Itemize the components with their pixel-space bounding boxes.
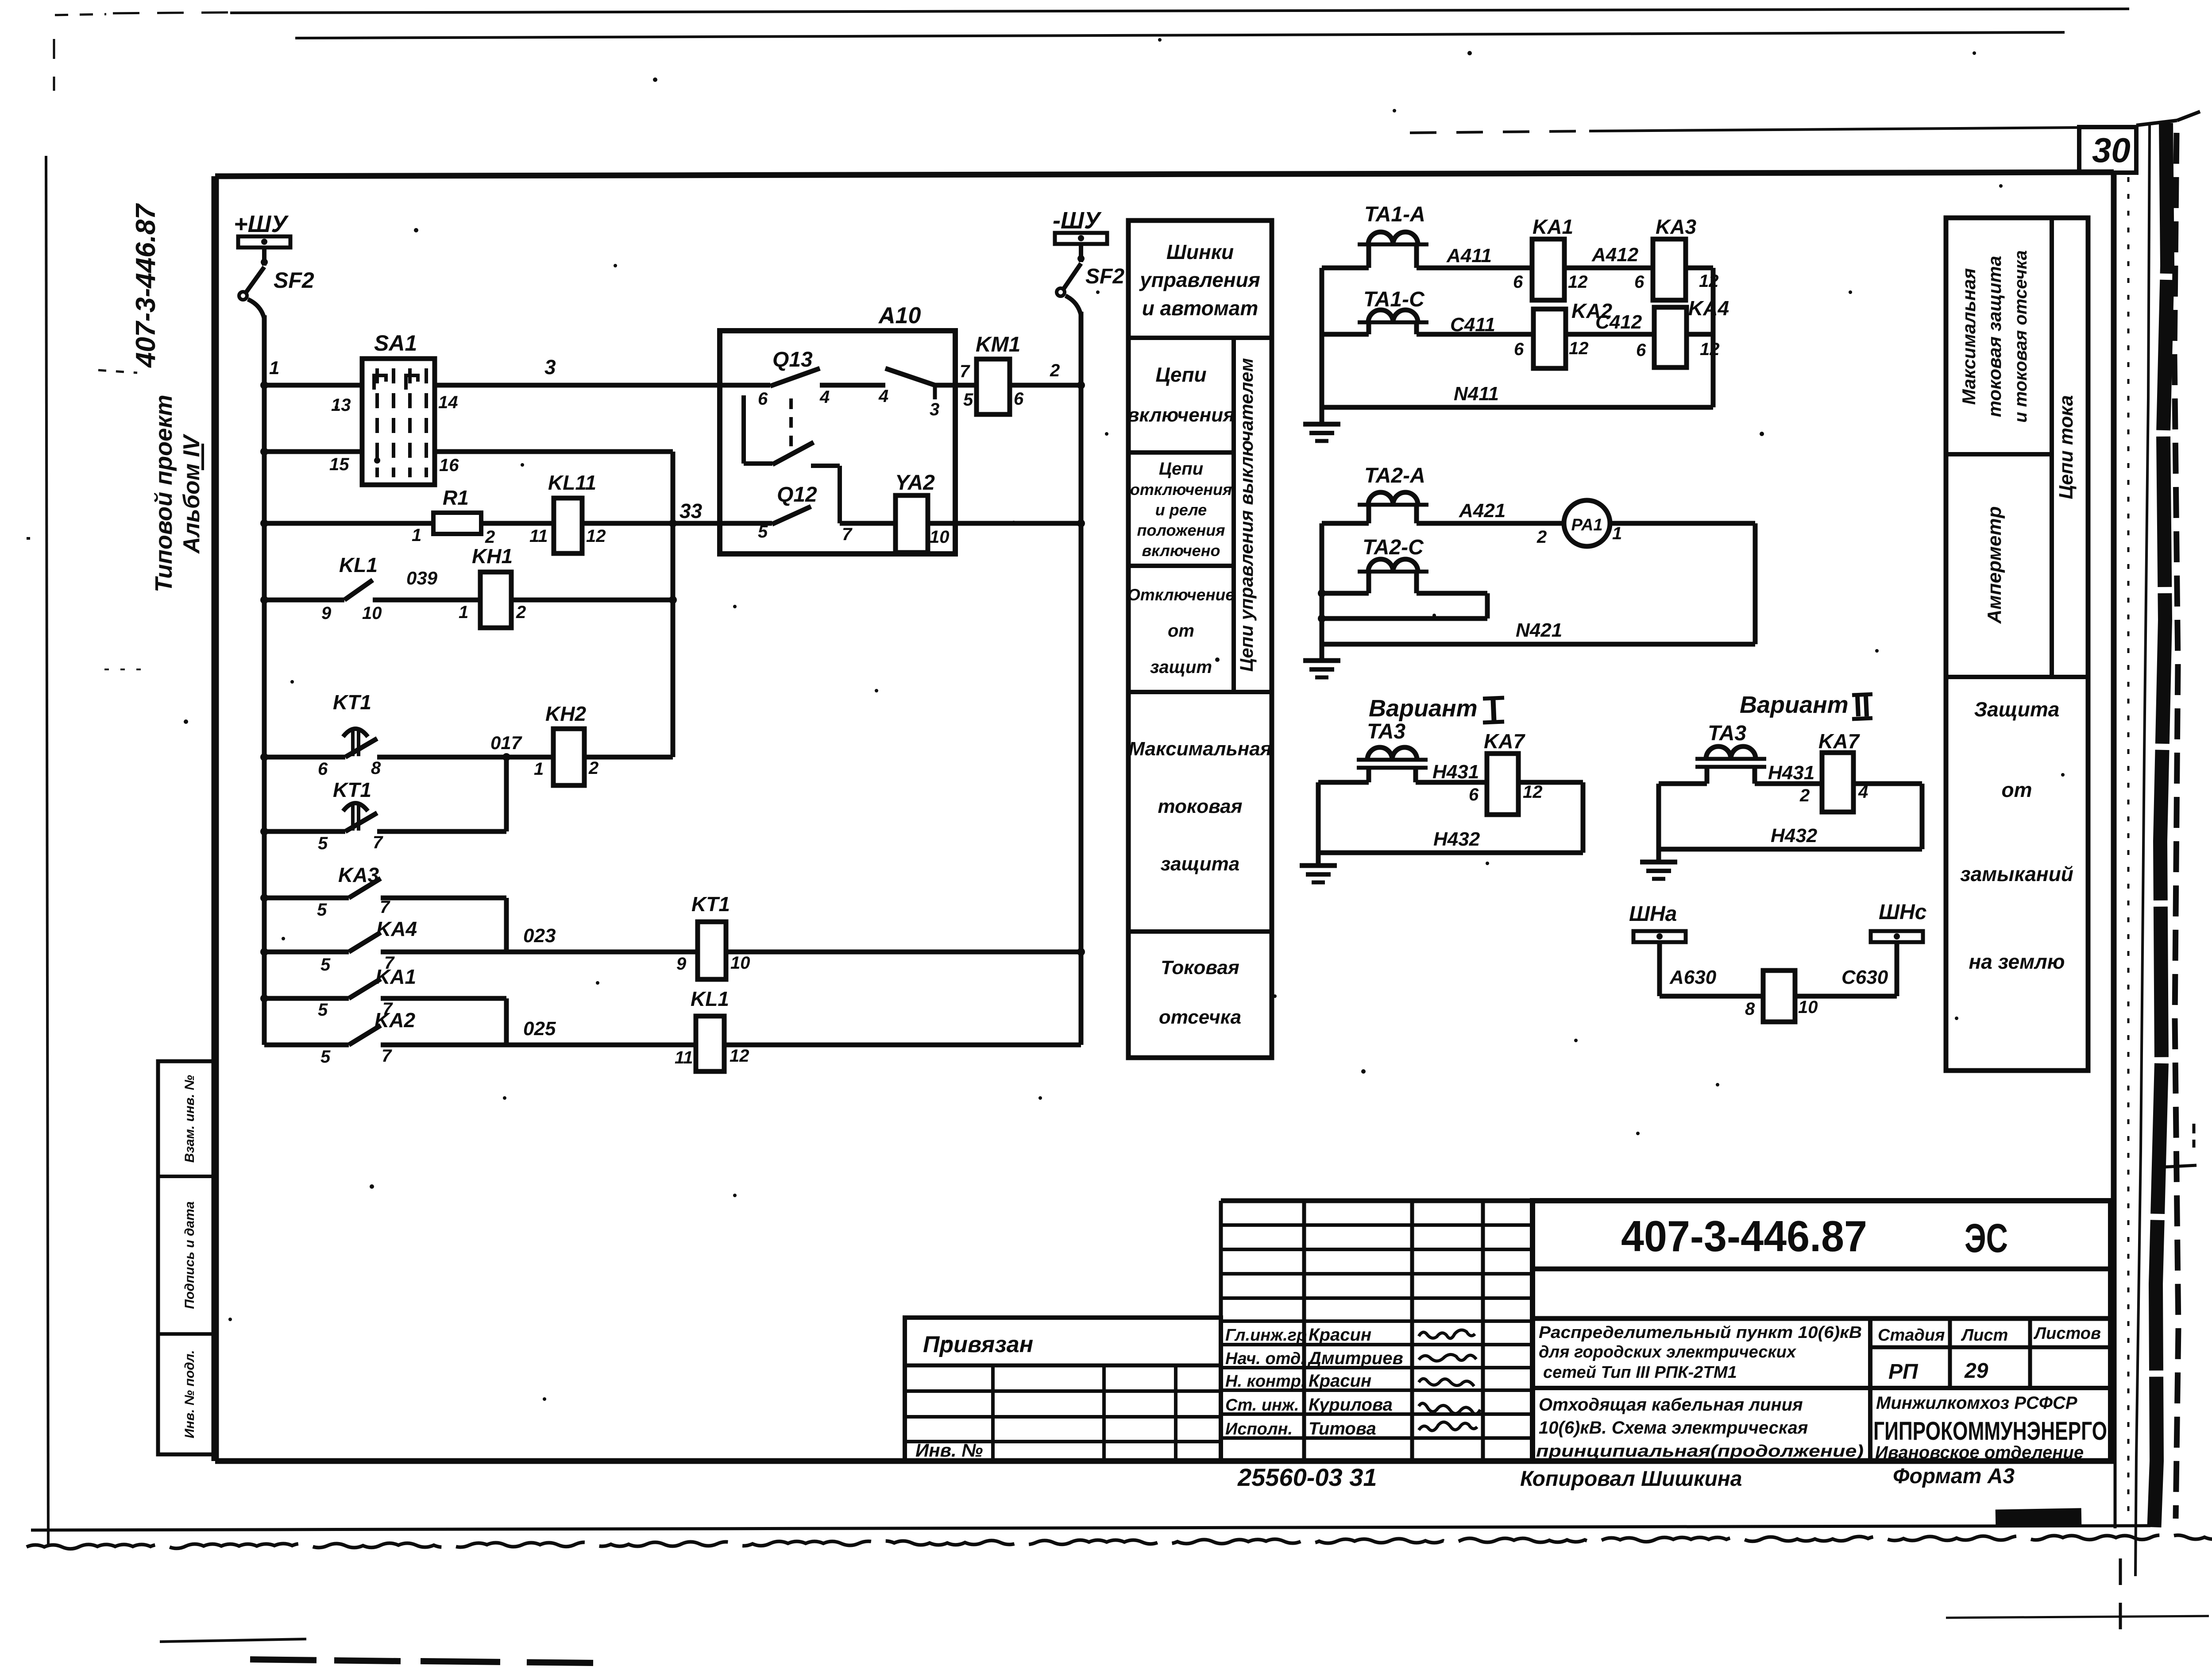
svg-text:принципиальная(продолжение): принципиальная(продолжение) <box>1536 1442 1864 1461</box>
svg-text:включения: включения <box>1127 404 1235 426</box>
svg-text:сетей Тип III РПК-2ТМ1: сетей Тип III РПК-2ТМ1 <box>1543 1363 1737 1382</box>
svg-text:Листов: Листов <box>2033 1324 2101 1343</box>
svg-text:7: 7 <box>960 362 970 381</box>
svg-text:Амперметр: Амперметр <box>1984 506 2005 624</box>
svg-text:C411: C411 <box>1450 314 1495 336</box>
svg-text:2: 2 <box>1050 361 1060 380</box>
svg-text:KM1: KM1 <box>976 333 1020 356</box>
svg-text:Отходящая кабельная линия: Отходящая кабельная линия <box>1539 1395 1803 1415</box>
svg-text:Н. контр.: Н. контр. <box>1225 1372 1306 1391</box>
svg-text:KL11: KL11 <box>548 471 596 494</box>
svg-text:Цепи: Цепи <box>1155 363 1206 386</box>
svg-text:023: 023 <box>523 925 556 947</box>
svg-text:KA1: KA1 <box>1533 215 1573 238</box>
svg-text:от: от <box>2002 778 2032 801</box>
svg-text:A421: A421 <box>1459 500 1506 522</box>
svg-text:2: 2 <box>1799 786 1810 805</box>
svg-text:2: 2 <box>516 603 526 622</box>
svg-text:KT1: KT1 <box>333 691 371 714</box>
svg-text:5: 5 <box>758 522 768 541</box>
svg-text:YA2: YA2 <box>895 471 935 495</box>
svg-text:6: 6 <box>1634 272 1645 292</box>
svg-text:Исполн.: Исполн. <box>1225 1420 1293 1438</box>
svg-text:N421: N421 <box>1516 619 1562 641</box>
svg-text:Красин: Красин <box>1309 1325 1371 1345</box>
svg-text:6: 6 <box>1636 340 1646 360</box>
svg-text:017: 017 <box>490 732 522 753</box>
svg-text:6: 6 <box>318 759 328 779</box>
svg-text:10: 10 <box>1798 997 1818 1017</box>
svg-text:токовая: токовая <box>1158 796 1243 817</box>
svg-text:замыканий: замыканий <box>1960 862 2073 885</box>
svg-text:отключения: отключения <box>1130 480 1232 499</box>
svg-text:1: 1 <box>412 526 421 545</box>
svg-text:-ШУ: -ШУ <box>1053 207 1102 234</box>
svg-text:5: 5 <box>963 390 973 410</box>
svg-text:Ст. инж.: Ст. инж. <box>1225 1396 1299 1415</box>
svg-text:C412: C412 <box>1595 311 1642 333</box>
svg-text:5: 5 <box>318 1000 328 1020</box>
svg-text:Цепи управления выключателем: Цепи управления выключателем <box>1236 358 1257 672</box>
svg-text:SA1: SA1 <box>374 331 417 356</box>
svg-text:токовая защита: токовая защита <box>1984 256 2005 417</box>
svg-text:включено: включено <box>1142 541 1220 560</box>
svg-text:Максимальная: Максимальная <box>1128 738 1271 760</box>
svg-text:Лист: Лист <box>1961 1326 2008 1345</box>
svg-text:2: 2 <box>485 527 495 547</box>
svg-text:Q12: Q12 <box>777 483 817 506</box>
svg-text:3: 3 <box>544 356 556 379</box>
svg-text:KT1: KT1 <box>691 893 730 916</box>
svg-text:ШНа: ШНа <box>1629 902 1677 926</box>
svg-text:4: 4 <box>819 387 830 407</box>
svg-text:Максимальная: Максимальная <box>1958 268 1979 405</box>
svg-text:6: 6 <box>1514 340 1524 359</box>
svg-text:защит: защит <box>1150 657 1212 677</box>
svg-text:407-3-446.87: 407-3-446.87 <box>1621 1212 1867 1260</box>
svg-text:Привязан: Привязан <box>923 1332 1033 1357</box>
svg-text:Вариант: Вариант <box>1369 695 1478 722</box>
svg-text:Защита: Защита <box>1974 698 2060 721</box>
svg-text:025: 025 <box>523 1018 556 1040</box>
svg-text:3: 3 <box>930 400 939 419</box>
svg-text:5: 5 <box>318 834 328 853</box>
svg-text:4: 4 <box>878 387 888 406</box>
svg-text:Q13: Q13 <box>772 348 813 371</box>
svg-text:Курилова: Курилова <box>1309 1395 1393 1415</box>
svg-text:положения: положения <box>1137 521 1225 539</box>
svg-text:Дмитриев: Дмитриев <box>1307 1349 1403 1368</box>
svg-text:TA3: TA3 <box>1367 720 1405 743</box>
svg-text:Минжилкомхоз РСФСР: Минжилкомхоз РСФСР <box>1876 1393 2077 1413</box>
svg-text:1: 1 <box>1612 524 1622 543</box>
svg-text:6: 6 <box>758 389 768 409</box>
svg-text:7: 7 <box>842 525 853 544</box>
svg-text:Ивановское отделение: Ивановское отделение <box>1875 1443 2084 1462</box>
svg-text:12: 12 <box>586 526 606 546</box>
svg-text:1: 1 <box>269 357 279 378</box>
svg-text:7: 7 <box>380 897 390 917</box>
svg-text:защита: защита <box>1161 853 1240 875</box>
svg-text:A630: A630 <box>1669 967 1717 988</box>
svg-text:6: 6 <box>1014 389 1024 409</box>
svg-text:12: 12 <box>730 1046 749 1066</box>
svg-text:7: 7 <box>382 1046 392 1066</box>
svg-text:14: 14 <box>438 393 458 412</box>
svg-text:13: 13 <box>331 395 351 415</box>
svg-text:A412: A412 <box>1591 244 1639 266</box>
svg-text:2: 2 <box>1536 527 1547 547</box>
svg-text:11: 11 <box>529 526 548 546</box>
svg-text:TA2-A: TA2-A <box>1364 464 1425 487</box>
svg-text:407-3-446.87: 407-3-446.87 <box>131 203 161 368</box>
svg-text:и токовая отсечка: и токовая отсечка <box>2011 250 2031 423</box>
svg-text:12: 12 <box>1523 782 1543 802</box>
svg-text:Отключение: Отключение <box>1127 586 1235 604</box>
svg-text:10: 10 <box>930 527 950 547</box>
svg-text:12: 12 <box>1569 339 1589 358</box>
svg-text:TA1-C: TA1-C <box>1363 288 1425 311</box>
svg-text:Копировал Шишкина: Копировал Шишкина <box>1520 1467 1742 1491</box>
svg-text:Титова: Титова <box>1309 1419 1376 1438</box>
svg-text:H431: H431 <box>1768 762 1814 784</box>
svg-text:10(6)кВ. Схема электрическая: 10(6)кВ. Схема электрическая <box>1539 1418 1808 1438</box>
svg-text:6: 6 <box>1513 272 1523 292</box>
svg-text:TA2-C: TA2-C <box>1363 536 1424 559</box>
svg-text:Инв. № подл.: Инв. № подл. <box>182 1350 197 1438</box>
svg-text:Типовой проект: Типовой проект <box>151 394 177 592</box>
svg-text:7: 7 <box>373 833 383 852</box>
svg-text:РП: РП <box>1888 1360 1919 1384</box>
svg-text:16: 16 <box>439 456 459 475</box>
svg-text:KA7: KA7 <box>1818 730 1860 753</box>
svg-text:33: 33 <box>679 499 703 522</box>
svg-text:9: 9 <box>321 603 332 623</box>
svg-text:12: 12 <box>1699 271 1719 291</box>
svg-text:KL1: KL1 <box>339 553 378 576</box>
svg-text:6: 6 <box>1469 785 1479 804</box>
svg-text:KH1: KH1 <box>472 545 513 568</box>
svg-text:R1: R1 <box>443 486 469 509</box>
svg-text:KA1: KA1 <box>375 965 416 988</box>
svg-text:1: 1 <box>459 603 468 622</box>
svg-text:KA3: KA3 <box>1656 215 1696 238</box>
svg-text:SF2: SF2 <box>1085 265 1124 288</box>
svg-text:10: 10 <box>730 953 750 973</box>
svg-text:Взам. инв. №: Взам. инв. № <box>182 1075 197 1163</box>
svg-text:KH2: KH2 <box>545 702 586 725</box>
svg-text:30: 30 <box>2092 131 2131 170</box>
svg-text:N411: N411 <box>1454 383 1499 405</box>
svg-text:A10: A10 <box>878 303 921 329</box>
svg-text:SF2: SF2 <box>274 268 314 293</box>
svg-text:Шинки: Шинки <box>1166 240 1234 263</box>
svg-text:Цепи: Цепи <box>1159 459 1203 479</box>
svg-text:ШНс: ШНс <box>1879 901 1926 924</box>
svg-text:KA7: KA7 <box>1484 730 1525 753</box>
svg-text:11: 11 <box>675 1048 693 1067</box>
svg-text:ЭС: ЭС <box>1965 1216 2008 1261</box>
svg-text:Цепи тока: Цепи тока <box>2055 395 2077 499</box>
svg-text:Альбом IV: Альбом IV <box>179 433 205 554</box>
svg-text:Гл.инж.гр: Гл.инж.гр <box>1225 1326 1307 1345</box>
svg-text:+ШУ: +ШУ <box>234 211 289 237</box>
svg-text:5: 5 <box>320 955 331 974</box>
svg-text:5: 5 <box>317 900 327 920</box>
svg-text:H432: H432 <box>1771 825 1818 847</box>
svg-text:KA4: KA4 <box>1688 297 1729 320</box>
svg-text:5: 5 <box>320 1047 331 1067</box>
svg-text:15: 15 <box>329 455 349 474</box>
svg-text:KT1: KT1 <box>333 778 371 801</box>
svg-text:H431: H431 <box>1432 761 1479 783</box>
svg-text:Красин: Красин <box>1309 1371 1371 1391</box>
svg-text:ГИПРОКОММУНЭНЕРГО: ГИПРОКОММУНЭНЕРГО <box>1873 1417 2107 1446</box>
svg-text:Формат А3: Формат А3 <box>1893 1465 2015 1488</box>
svg-text:отсечка: отсечка <box>1159 1006 1241 1028</box>
svg-text:12: 12 <box>1700 340 1720 359</box>
svg-text:H432: H432 <box>1433 828 1480 850</box>
svg-text:KL1: KL1 <box>691 987 729 1010</box>
svg-text:12: 12 <box>1568 272 1588 292</box>
svg-text:Распределительный пункт 10(6)к: Распределительный пункт 10(6)кВ <box>1539 1323 1862 1342</box>
svg-text:для городских электрических: для городских электрических <box>1539 1343 1797 1361</box>
svg-text:KA4: KA4 <box>376 917 417 940</box>
svg-text:29: 29 <box>1964 1359 1988 1383</box>
svg-text:A411: A411 <box>1446 245 1492 267</box>
svg-text:и автомат: и автомат <box>1142 297 1258 320</box>
svg-text:8: 8 <box>371 758 381 778</box>
svg-text:Нач. отд.: Нач. отд. <box>1225 1349 1305 1368</box>
svg-text:управления: управления <box>1139 268 1260 291</box>
svg-text:10: 10 <box>362 603 382 623</box>
svg-text:C630: C630 <box>1841 967 1888 988</box>
svg-text:Стадия: Стадия <box>1878 1326 1945 1345</box>
svg-text:Подпись и дата: Подпись и дата <box>182 1201 197 1309</box>
svg-text:25560-03 31: 25560-03 31 <box>1237 1463 1377 1491</box>
svg-text:8: 8 <box>1745 999 1755 1019</box>
svg-text:PA1: PA1 <box>1571 516 1602 534</box>
svg-text:TA1-A: TA1-A <box>1364 203 1425 226</box>
svg-text:2: 2 <box>588 758 598 778</box>
svg-text:1: 1 <box>534 759 544 779</box>
svg-text:и реле: и реле <box>1155 501 1207 519</box>
svg-text:9: 9 <box>676 954 687 974</box>
svg-text:Токовая: Токовая <box>1161 957 1239 978</box>
svg-text:от: от <box>1168 621 1194 641</box>
svg-text:TA3: TA3 <box>1708 722 1746 745</box>
svg-text:Вариант: Вариант <box>1740 692 1849 718</box>
svg-text:Инв. №: Инв. № <box>915 1440 983 1461</box>
svg-text:039: 039 <box>406 568 438 588</box>
svg-text:на землю: на землю <box>1969 950 2065 973</box>
